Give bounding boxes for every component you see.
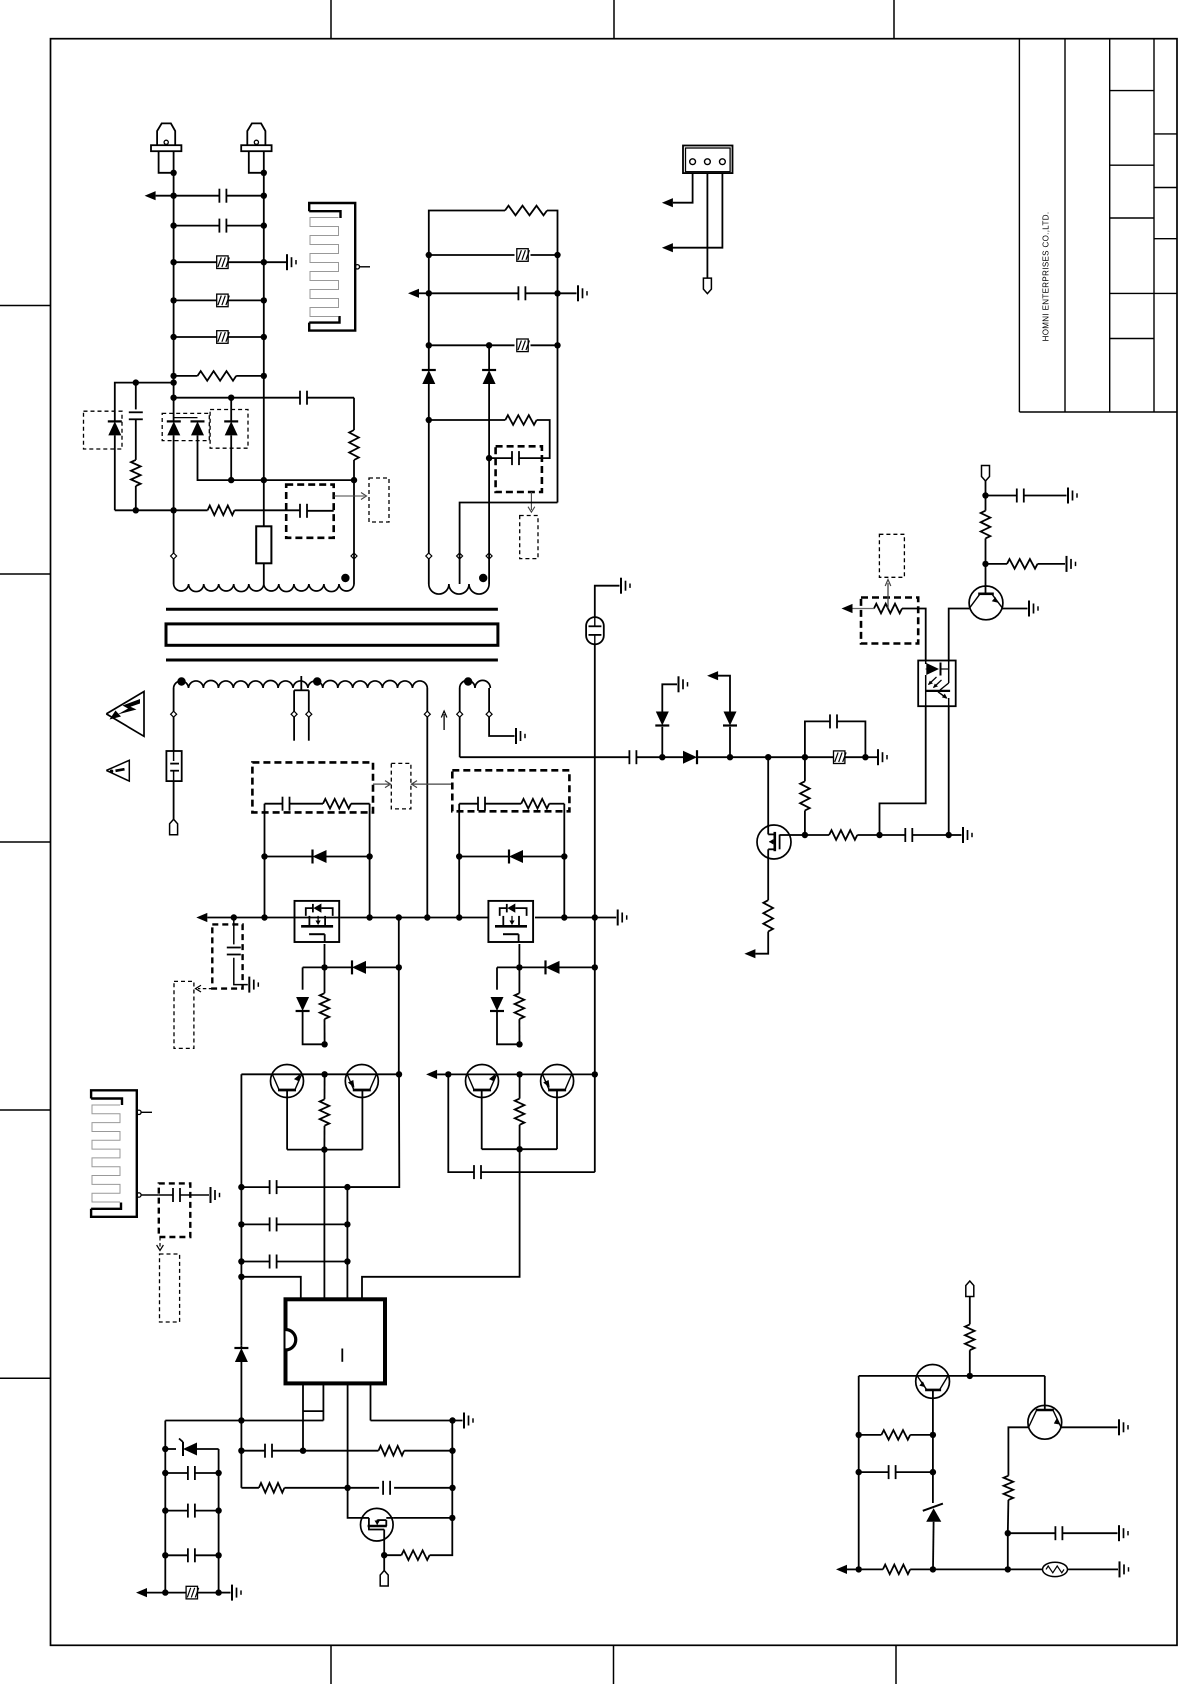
resistor R10 [323,799,351,809]
wire Q5 collector [1044,1376,1046,1410]
wire row2 [174,225,264,227]
resistor R5 [763,900,773,931]
resistor R17 [259,1483,285,1493]
transistor Q11 [541,1065,574,1098]
fusible resistor F5 [186,1586,199,1599]
wire D9 row [459,856,564,858]
diode D14 [234,1345,248,1362]
capacitor C25 [889,1465,896,1479]
title block grid [1019,39,1177,412]
net port arrow A2 [707,671,718,680]
wire rail L (x173.6) [170,170,176,422]
X-capacitor box XC1 [166,751,181,781]
heatsink HS2 port 2 [137,1193,159,1197]
net port arrow A11 [836,1565,859,1574]
test tag TP3 [380,1571,388,1587]
warning triangle caution [106,760,129,781]
wire R21 bottom [967,1350,973,1379]
capacitor C1 [219,189,226,203]
net port arrow A8 [408,289,429,298]
port diamond 3 [426,553,432,559]
capacitor C2 [219,219,226,233]
wire SB2 left leg [261,804,267,921]
title block company text [1042,212,1051,342]
diode D7 [723,712,737,726]
wire Q5 emitter [1061,1426,1117,1428]
wire TP2 down [982,481,988,511]
resistor R7 [829,830,857,840]
wire IC pin a [300,1383,324,1454]
wire row 510.3 right [235,509,300,511]
wire Q1 source [767,858,769,900]
wire C25 row [859,1471,933,1473]
wire R22 row [859,1434,933,1436]
fusible resistor F3 [217,331,230,344]
transformer core rect [166,624,498,645]
wire Q5 base [1008,1427,1028,1475]
phase dot aux primary [479,574,487,582]
wire aux cap row [429,292,577,294]
wire stack right rail [215,1449,221,1596]
dashed ref rect RR2 [879,534,904,577]
diode D16 [482,345,496,461]
capacitor C3 [129,412,143,419]
wire row 1420 right [371,1417,463,1423]
transformer T1 aux secondary winding [460,680,491,688]
wire cap row B [165,1510,218,1512]
wire C3 top [135,383,137,410]
test tag TP2 [982,466,990,482]
wire D8 row [265,856,370,858]
wire IC pin b [322,1383,324,1420]
diode D1 [108,421,122,435]
dashed link DC2 [157,1237,164,1251]
resistor R1 [198,371,237,381]
wire D12 branch [497,967,519,989]
left fold tick 1 [0,305,51,307]
wire row4 [174,299,264,301]
bottom fold tick 2 [613,1645,615,1684]
wire row1 [174,195,264,197]
resistor R2 [131,460,141,486]
wire row 1276.8 [241,1277,300,1300]
capacitor C15 [270,1217,277,1231]
wire right pair row [445,1071,595,1077]
net port arrow A4 [842,604,875,613]
IC U1 body [286,1299,386,1383]
port diamond 6 [291,711,297,717]
resistor R8 [981,511,991,539]
wire DC1 cap [233,918,235,945]
wire row6 [174,375,264,377]
resistor R20 [505,415,536,425]
phase dot aux sec [464,677,472,685]
wire reg left rail [856,1376,862,1573]
wire CN1 pin1 [673,173,693,203]
wire right pair cap row [448,1074,595,1172]
wire D12 bottom [497,1011,523,1047]
wire left join to IC [323,1150,325,1300]
diode D12 [490,997,504,1011]
diode D6 [655,712,669,726]
port diamond 8 [171,711,177,717]
wire C3-R2 [135,419,137,460]
wire cap row1 [241,1184,399,1190]
wire left emitters join [287,1146,362,1152]
ground G1 [287,254,296,270]
resistor R3 [208,506,235,516]
wire D11 row [325,964,402,970]
diode D3 [174,418,205,436]
diode D13 [546,960,560,974]
snubber dashed box SB2 [252,762,373,812]
wire R6 leads [804,757,806,835]
wire spark top [595,586,620,617]
capacitor C16 [270,1255,277,1269]
transistor Q8 [271,1065,304,1098]
diode D4 [224,398,238,480]
net port arrow A7 [136,1588,165,1597]
transformer T1 aux winding [429,584,489,594]
wire row 397.7 [174,395,354,401]
snubber dashed box SB3 [452,770,569,811]
wire R18 left [384,1554,401,1556]
wire cap loop [805,721,866,757]
transistor Q4 [916,1365,950,1399]
capacitor C9 [1017,489,1024,503]
net port arrow A9 [662,198,673,207]
ground G12 [464,1413,473,1429]
wire aux-sec right down [489,688,514,736]
fusible resistor F2 [217,294,230,307]
capacitor C6 [629,750,636,764]
fusible resistor F7 [517,339,530,352]
wire SB4 cap [489,457,542,459]
reference arrow SB4 [528,492,535,512]
capacitor C4 [300,391,307,405]
resistor R4 [349,430,359,460]
dashed ref rect RR3 [391,763,411,809]
ground G8 [1067,556,1076,572]
transistor Q9 [345,1065,378,1098]
diode D10 [296,997,310,1011]
wire rail N (x263.8) [261,170,267,527]
potentiometer dashed box VR1 [861,598,918,644]
resistor R15 [515,1074,525,1149]
wire cap row A [165,1472,218,1474]
wire D1 bottom [114,435,116,510]
capacitor C24 [512,451,519,465]
wire x347 to IC [346,1187,348,1299]
top fold tick 1 [330,0,332,39]
diode D11 [352,960,366,974]
port diamond 4 [457,553,463,559]
wire aux R20 row [429,420,550,458]
wire aux rail L [426,252,432,370]
test tag TP4 [703,278,711,294]
wire Q6 source [321,944,327,971]
wire SB2 right leg [366,804,372,921]
port diamond 9 [424,711,430,717]
resistor R19 [505,206,547,216]
wire aux hatch row2 [429,342,558,348]
capacitor C21 [188,1548,195,1562]
dashed box D2D3 [162,413,209,440]
wire D6 top [662,684,677,711]
capacitor C20 [188,1504,195,1518]
MOSFET Q7 box [488,901,533,942]
transformer T1 secondary winding [174,681,428,689]
net port arrow A5 [196,913,234,922]
wire D6 branch [661,727,663,757]
fusible resistor F4 [834,751,847,764]
dashed ref rect RR1 [369,478,389,522]
wire C26 row [1008,1532,1118,1534]
wire cap row2 [241,1221,350,1227]
wire aux top row [429,211,558,256]
resistor R21 [965,1324,975,1350]
fusible resistor F6 [517,249,530,262]
wiper arrow VR1 [885,580,891,609]
port diamond 11 [486,711,492,717]
wire Q10 emitter [481,1090,483,1149]
bottom fold tick 3 [895,1645,897,1684]
wire right emitters join [482,1146,557,1152]
dashed box DC2 [159,1183,191,1237]
resistor R16 [379,1446,405,1456]
wire x354 to winding [353,553,355,584]
capacitor C17 [265,1444,272,1458]
heatsink HS2 port 1 [137,1110,152,1114]
capacitor C8 [905,828,912,842]
wire spark down [592,644,598,1172]
sync link arrows [373,781,452,788]
AC inlet pin P1 [151,123,181,172]
reference arrow SB1 [334,493,367,500]
ground G14 [211,1187,220,1203]
wire aux-sec left down [459,688,461,757]
zener diode ZD2 [923,1504,943,1573]
ground G10 [618,910,627,926]
wire zener row [165,1448,218,1450]
potentiometer VR1 [874,604,902,614]
zener diode ZD1 [179,1439,197,1457]
dashed box D4 [210,410,248,449]
connector CN1 [683,146,733,174]
wire R9 row [986,563,1066,565]
wire main row y757 [460,754,869,760]
resistor R6 [800,781,810,810]
wire Q8 emitter [286,1090,288,1150]
dashed ref rect RR5 [160,1254,180,1322]
wire SB3 right leg [561,804,567,921]
wire D7 top [718,676,730,712]
transistor Q3 [969,586,1003,620]
net port arrow A10 [662,243,673,252]
wire row3 [174,261,287,263]
capacitor C11 [478,797,485,811]
wire secondary left down [173,688,175,751]
wire Q9 emitter [361,1090,363,1150]
left fold tick 2 [0,573,51,575]
wire R8 bottom [982,538,988,586]
wire reg bottom row [859,1566,1118,1572]
wire Q3 emitter [1003,608,1028,610]
transistor Q10 [466,1065,499,1098]
heatsink HS1 port [355,265,370,269]
test tag TP1 [170,819,178,835]
ground G16 [1120,1561,1129,1577]
resistor R12 [320,967,330,1044]
capacitor C5 [300,504,307,518]
wire C9 row [986,495,1067,497]
wire Q12 drain [393,1517,452,1519]
wire row5 [174,336,264,338]
wire opto emitter [948,706,950,835]
wire secondary right down [426,688,428,918]
phase dot sec 2 [313,677,321,685]
wire XC1 to tag [173,781,175,819]
wire cap row C [165,1554,218,1556]
snubber dashed box SB1 [286,485,334,538]
ground G18 [1119,1525,1128,1541]
port diamond 2 [351,553,357,559]
wire D16 to winding [488,458,490,584]
wire reg top row [859,1375,1045,1377]
capacitor C10 [283,797,290,811]
wire row 1420 left [165,1420,323,1422]
wire D3 bottom [198,435,232,480]
secondary tap fork [294,676,309,741]
dashed box D1 [84,411,123,449]
port diamond 5 [486,553,492,559]
wire SB1 cap right [307,510,334,512]
wire bottom row [165,1592,230,1594]
wire Q1 source to port [755,932,768,954]
ground G5 [679,676,688,692]
heatsink HS1 [309,203,355,331]
wire aux hatch row1 [429,254,558,256]
MOSFET Q6 box [295,901,340,942]
resistor R22 [881,1430,910,1440]
wire left pair row [241,1071,399,1077]
wire Q11 emitter [556,1090,558,1149]
resistor R9 [1007,559,1038,569]
ground G11 [249,977,258,993]
wire opto collector to Q3 base [949,609,970,661]
capacitor C22 [173,1188,180,1202]
MOSFET Q1 [757,825,791,859]
diode D9 [509,850,523,864]
top fold tick 2 [613,0,615,39]
wire aux rail R [554,252,560,503]
capacitor C23 [518,286,525,300]
wire gate row [791,832,962,838]
ground G13 [232,1585,241,1601]
wire RB1 bottom [263,563,265,584]
wire SB3 internal [459,803,564,805]
fusible resistor F1 [217,256,230,269]
wire row 1487 [241,1485,455,1491]
wire opto cathode [880,706,926,835]
transformer core line top [166,608,498,611]
wire Q1 drain [767,757,769,826]
wire aux rail R bottom [460,503,558,585]
phase dot sec 1 [177,677,185,685]
wire Q7 source [516,944,522,971]
bottom fold tick 1 [330,1645,332,1684]
capacitor C7 [830,714,837,728]
diode D15 [422,370,436,423]
snubber dashed box SB4 [496,446,542,492]
transformer tap resistor box RB1 [256,526,271,563]
wire stack left rail [162,1421,168,1596]
phase dot primary [341,574,349,582]
transistor Q5 [1028,1405,1062,1439]
wire rail x241 upper [238,1074,244,1345]
wire row 382.6 [115,379,174,421]
wire D10 bottom [303,1011,328,1047]
svg-text:HOMNI ENTERPRISES CO.,LTD.: HOMNI ENTERPRISES CO.,LTD. [1042,212,1051,342]
diode D2 [167,421,181,435]
warning triangle lightning [106,692,144,737]
dashed link DC1 [196,985,213,992]
wire main row y917 [231,914,617,920]
wire cap row3 [241,1258,350,1264]
wire D13 row [519,966,594,968]
wire IC pin d [370,1383,372,1420]
top fold tick 3 [893,0,895,39]
ground G2 [516,728,525,744]
ground G6 [963,827,972,843]
test tag TP5 [966,1281,974,1297]
wire TP5 down [969,1297,971,1325]
heatsink HS2 [91,1090,137,1217]
resistor R13 [515,967,525,1044]
wire right join down [362,1149,520,1299]
resistor R14 [320,1074,330,1149]
AC inlet pin P2 [241,123,271,172]
capacitor C19 [188,1466,195,1480]
ground G7 [1068,488,1077,504]
wire rail L to winding [173,435,175,584]
wire R2 bottom [135,486,137,510]
resistor R11 [521,799,549,809]
wire Q12 source [381,1541,387,1571]
wire D10 branch [303,967,325,989]
ground G17 [1119,1419,1128,1435]
wire IC pin c [344,1383,361,1518]
wire rail x452 [430,1421,456,1556]
left fold tick 5 [0,1377,51,1379]
resistor R23 [883,1565,910,1575]
optocoupler U2 [918,661,956,707]
ground G4 [865,749,887,765]
resistor R18 [401,1550,429,1560]
wire R24 bottom [1005,1500,1011,1570]
ground G9 [1029,601,1038,617]
wire CN1 pin3 [673,173,722,248]
winding direction arrow [441,711,447,730]
port diamond 10 [457,711,463,717]
resistor R24 [1004,1476,1014,1500]
wire row 1450 [241,1448,455,1454]
wire SB2 internal [265,803,370,805]
dashed ref rect RR4 [174,981,194,1048]
wire SB3 left leg [456,804,462,921]
wire row 480.1 [228,477,357,483]
thermistor RT1 [1043,1562,1068,1576]
